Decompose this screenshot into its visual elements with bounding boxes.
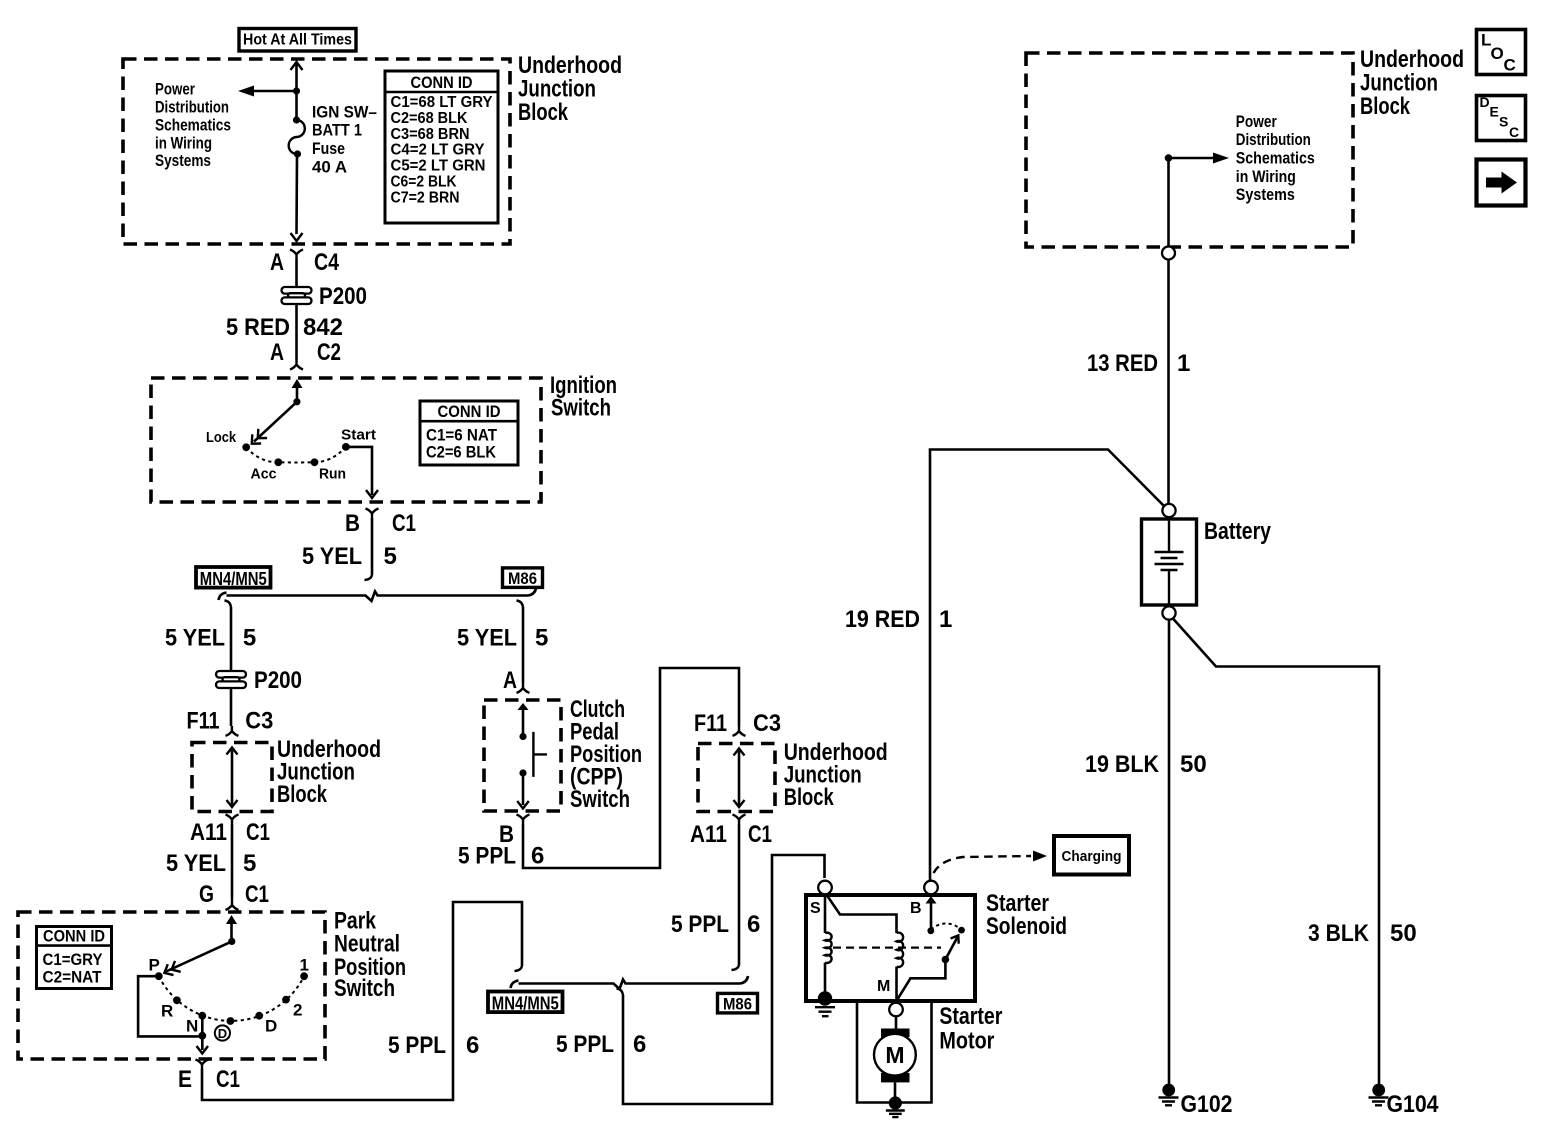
svg-text:E: E (178, 1066, 192, 1093)
svg-text:MN4/MN5: MN4/MN5 (492, 994, 559, 1014)
svg-text:CONN ID: CONN ID (411, 73, 473, 92)
svg-text:5: 5 (535, 624, 548, 651)
wire from fuse to box exit (295, 154, 298, 234)
CPP entry arrow (518, 703, 529, 736)
LOC nav box (1477, 30, 1526, 75)
wire A/C4 to P200 (295, 259, 298, 288)
svg-text:50: 50 (1180, 751, 1207, 778)
svg-text:1: 1 (939, 606, 952, 633)
connector B / C1 below ignition (345, 509, 416, 538)
fixed contact (958, 927, 965, 934)
wire label 13 RED 1 (1087, 350, 1190, 377)
ground G102 (1159, 1084, 1233, 1118)
wire E/C1 to lower bus (5 PPL) (202, 902, 522, 1100)
svg-text:C1: C1 (216, 1066, 240, 1093)
svg-text:MN4/MN5: MN4/MN5 (200, 569, 267, 589)
wire label 5 PPL 6 (to bus) (671, 911, 760, 938)
svg-text:Battery: Battery (1204, 518, 1272, 545)
svg-text:Schematics: Schematics (1236, 149, 1315, 168)
svg-text:D: D (1480, 94, 1490, 110)
label Ignition Switch (550, 372, 617, 422)
svg-text:C3=68 BRN: C3=68 BRN (391, 126, 470, 143)
wire motor to ground (894, 1082, 897, 1098)
svg-text:C1: C1 (392, 510, 416, 537)
starter motor (874, 1029, 916, 1083)
svg-text:5: 5 (384, 543, 397, 570)
PNP positions dashed arc (159, 976, 304, 1021)
wire label 5 YEL 5 (left branch) (165, 624, 256, 651)
svg-text:M86: M86 (723, 995, 752, 1014)
terminal labels S B (810, 900, 922, 917)
contact 1 (300, 972, 308, 980)
feed-through arrow inside junction block (227, 748, 238, 808)
B internal arrow (926, 896, 937, 934)
position labels (206, 428, 376, 483)
contact N output (198, 1032, 206, 1040)
hold-in coil to ground (824, 963, 827, 997)
harness tag M86 (lower) (718, 993, 758, 1013)
battery negative terminal (1162, 606, 1175, 619)
wire CPP B over to second junction block (523, 668, 739, 868)
svg-text:Fuse: Fuse (312, 139, 345, 158)
connector G / C1 (199, 881, 269, 910)
svg-text:C2=6 BLK: C2=6 BLK (426, 443, 497, 462)
svg-text:IGN SW–: IGN SW– (312, 102, 377, 121)
svg-text:in Wiring: in Wiring (1236, 167, 1296, 186)
wire A11 to G (231, 824, 234, 898)
svg-text:C1: C1 (748, 821, 772, 848)
svg-text:C7=2 BRN: C7=2 BRN (391, 189, 460, 206)
svg-text:C4=2 LT GRY: C4=2 LT GRY (391, 142, 485, 159)
ignition switch pivot wire with up arrow (292, 379, 303, 405)
svg-text:G: G (199, 881, 214, 908)
svg-text:2: 2 (293, 1001, 302, 1020)
svg-text:C: C (1509, 124, 1519, 140)
label Underhood Junction Block (right small) (784, 739, 888, 811)
wire from Hot At All Times down to fuse (295, 64, 298, 120)
svg-text:M: M (877, 978, 890, 995)
UJB output terminal circle (1162, 247, 1175, 260)
wire label 5 PPL 6 (PNP output) (388, 1032, 479, 1059)
coil linkage dashed line (833, 946, 941, 948)
down arrowhead at ignition exit (366, 490, 378, 498)
label Underhood Junction Block (right) (1360, 46, 1464, 120)
wire battery to solenoid B (19 RED) (930, 450, 1165, 882)
svg-text:Switch: Switch (570, 786, 630, 813)
wire label 5 RED 842 (226, 314, 343, 341)
PNP wiper arm to P (164, 941, 231, 975)
pull-in coil to M (895, 967, 898, 1000)
terminal M circle (889, 1003, 903, 1017)
svg-text:Starter: Starter (939, 1003, 1002, 1030)
svg-text:Run: Run (319, 467, 346, 483)
starter solenoid box (806, 895, 975, 1001)
svg-text:C3: C3 (753, 710, 781, 737)
svg-text:C4: C4 (314, 249, 340, 276)
contact R (173, 996, 181, 1004)
svg-text:G104: G104 (1387, 1091, 1440, 1118)
connector A / C2 (270, 339, 341, 370)
connector A (CPP) (503, 667, 530, 694)
svg-text:Block: Block (784, 784, 834, 811)
battery cell symbol (1155, 519, 1184, 605)
CPP exit arrow (517, 773, 529, 809)
contact D (255, 1012, 263, 1020)
svg-text:Distribution: Distribution (155, 98, 229, 117)
svg-text:A: A (270, 249, 284, 276)
svg-text:5 PPL: 5 PPL (671, 911, 729, 938)
svg-text:Power: Power (155, 80, 195, 99)
P to N jumper wire (138, 976, 202, 1036)
wire label 19 BLK 50 (1085, 751, 1207, 778)
svg-text:S: S (810, 900, 821, 917)
svg-text:1: 1 (300, 956, 309, 975)
wire 5 RED 842 (295, 304, 298, 360)
harness tag M86 (503, 568, 543, 588)
CONN ID table (underhood junction block) (385, 71, 498, 223)
svg-text:F11: F11 (694, 710, 727, 737)
branch wire to Power Distribution (left arrow) (254, 90, 297, 93)
wire label 5 YEL 5 (302, 543, 397, 570)
svg-text:A11: A11 (690, 821, 727, 848)
svg-text:3 BLK: 3 BLK (1308, 920, 1370, 947)
connector B (CPP) (499, 815, 530, 849)
feed-through arrow inside junction block (right) (734, 749, 745, 808)
charging arrowhead (1033, 851, 1047, 862)
svg-text:O: O (1491, 44, 1504, 63)
svg-text:6: 6 (747, 911, 760, 938)
svg-text:G102: G102 (1181, 1091, 1233, 1118)
junction node in right UJB (1165, 154, 1173, 162)
svg-text:B: B (910, 900, 922, 917)
contact Acc (274, 458, 282, 466)
svg-text:Power: Power (1236, 112, 1277, 131)
svg-text:Acc: Acc (251, 467, 277, 483)
svg-text:Motor: Motor (939, 1028, 994, 1055)
fuse IGN SW-BATT 1 40 A (289, 116, 305, 157)
svg-text:F11: F11 (187, 708, 220, 735)
wire label 19 RED 1 (845, 606, 952, 633)
left branch hook below bus (225, 601, 232, 608)
label Starter Solenoid (986, 890, 1067, 940)
contact Start (342, 443, 350, 451)
wire N contact down to E exit (197, 1016, 209, 1054)
svg-text:5 PPL: 5 PPL (556, 1031, 614, 1058)
svg-text:5 YEL: 5 YEL (165, 624, 225, 651)
wire bus to CPP A (522, 607, 525, 683)
svg-text:Lock: Lock (206, 430, 237, 446)
svg-text:C1=6 NAT: C1=6 NAT (426, 425, 498, 444)
svg-text:C: C (1504, 56, 1516, 75)
svg-text:Charging: Charging (1062, 849, 1122, 865)
terminal B (924, 881, 938, 895)
harness tag MN4/MN5 (196, 567, 271, 589)
wire label 5 PPL 6 (solenoid feed) (556, 1031, 646, 1058)
motor bracket (857, 1001, 932, 1103)
svg-text:5 RED: 5 RED (226, 314, 290, 341)
svg-text:CONN ID: CONN ID (438, 402, 501, 421)
svg-text:B: B (345, 510, 360, 537)
grommet P200 (282, 283, 368, 310)
wire bus to starter solenoid S (623, 855, 825, 1104)
label Underhood Junction Block (left small) (277, 736, 381, 808)
svg-text:C2=NAT: C2=NAT (43, 968, 103, 987)
contact Run (311, 458, 319, 466)
hold-in coil (825, 933, 832, 963)
svg-text:A: A (503, 667, 517, 694)
Hot At All Times label box (239, 29, 356, 52)
svg-text:BATT 1: BATT 1 (312, 121, 362, 140)
svg-text:E: E (1490, 104, 1499, 120)
ignition positions dashed arc (246, 447, 346, 463)
solenoid pull-in winding feed (826, 894, 897, 933)
wire 13 RED to battery (1167, 260, 1170, 505)
svg-text:5 YEL: 5 YEL (457, 624, 517, 651)
svg-text:C1=GRY: C1=GRY (43, 950, 104, 969)
underhood junction block dashed box (right) (1026, 53, 1353, 247)
label Park Neutral Position Switch (334, 908, 406, 1003)
svg-text:19 RED: 19 RED (845, 606, 920, 633)
wire label 5 PPL 6 (CPP out) (458, 843, 544, 870)
wire Start to C1 exit (346, 447, 372, 495)
moving contact arm (897, 935, 959, 1000)
wire label 3 BLK 50 (1308, 920, 1417, 947)
wire P200 to F11 (230, 688, 233, 726)
clutch pedal position switch dashed box (484, 700, 561, 811)
svg-text:Switch: Switch (551, 395, 611, 422)
svg-text:D: D (265, 1016, 277, 1035)
svg-text:N: N (186, 1016, 198, 1035)
underhood junction block dashed box (top left) (123, 59, 510, 244)
svg-text:in Wiring: in Wiring (155, 133, 212, 152)
solenoid case ground (815, 991, 835, 1016)
wire A11 down to lower bus (738, 824, 741, 965)
battery box (1142, 519, 1197, 605)
fuse value label (312, 102, 377, 176)
left branch wire to P200 (230, 607, 233, 671)
ignition switch dashed box (151, 378, 541, 502)
connector F11 / C3 (187, 708, 274, 736)
svg-text:Block: Block (518, 99, 568, 126)
connector A11 / C1 (190, 815, 270, 847)
svg-text:5: 5 (243, 850, 256, 877)
svg-text:1: 1 (1177, 350, 1190, 377)
pull-in coil (897, 933, 904, 967)
svg-text:5: 5 (243, 624, 256, 651)
svg-text:13 RED: 13 RED (1087, 350, 1158, 377)
forward arrow nav box (1477, 160, 1526, 206)
svg-text:Start: Start (341, 428, 376, 444)
svg-text:D: D (218, 1026, 227, 1041)
underhood junction block dashed box (right small) (698, 744, 775, 812)
connector A11 / C1 (right) (690, 815, 772, 849)
branch arrow to Power Distribution (right) (1169, 153, 1230, 164)
wire junction down to UJB output (1167, 158, 1170, 247)
ground G104 (1369, 1084, 1440, 1118)
position labels P R N D 2 1 (149, 956, 309, 1036)
svg-text:M86: M86 (508, 569, 537, 588)
wire battery to G104 (3 BLK) (1173, 618, 1380, 1084)
svg-text:C2: C2 (317, 339, 341, 366)
CONN ID table (ignition switch) (420, 401, 518, 465)
circled D indicator (215, 1025, 230, 1041)
svg-text:S: S (1499, 114, 1508, 130)
contact N (198, 1012, 206, 1020)
svg-text:40 A: 40 A (312, 157, 347, 176)
DESC nav box (1477, 94, 1526, 141)
right branch hook below bus (to CPP) (517, 601, 524, 608)
svg-text:Schematics: Schematics (155, 115, 231, 134)
svg-text:C5=2 LT GRN: C5=2 LT GRN (391, 158, 486, 175)
svg-text:P200: P200 (254, 667, 302, 694)
svg-text:Solenoid: Solenoid (986, 913, 1067, 940)
dashed branch to charging (934, 856, 1032, 873)
svg-text:6: 6 (633, 1031, 646, 1058)
park neutral position switch dashed box (18, 912, 325, 1059)
terminal S (818, 881, 832, 895)
harness tag MN4/MN5 (lower) (488, 992, 563, 1014)
motor ground (886, 1096, 905, 1117)
wire end hook above bus (365, 575, 373, 580)
svg-text:C1: C1 (245, 881, 269, 908)
note: Power Distribution Schematics in Wiring Systems (right) (1236, 112, 1315, 204)
label Underhood Junction Block (top left box) (518, 52, 622, 126)
svg-text:C6=2 BLK: C6=2 BLK (391, 174, 457, 191)
svg-text:5 PPL: 5 PPL (388, 1032, 446, 1059)
svg-text:Systems: Systems (1236, 185, 1295, 204)
svg-text:50: 50 (1390, 920, 1417, 947)
contact P (155, 972, 163, 980)
svg-text:P200: P200 (319, 283, 367, 310)
lower splice bus MN4/MN5 to M86 (511, 976, 749, 989)
contact 2 (282, 996, 290, 1004)
svg-text:5 YEL: 5 YEL (302, 543, 362, 570)
label Clutch Pedal Position (CPP) Switch (570, 696, 642, 813)
PNP pivot wire with up arrow (226, 915, 237, 945)
svg-text:R: R (161, 1002, 173, 1021)
svg-text:6: 6 (531, 843, 544, 870)
wire B/C1 to splice bus (371, 518, 374, 575)
lower branch hook below bus (617, 989, 624, 996)
battery positive terminal (1162, 504, 1175, 517)
connector E / C1 (178, 1060, 240, 1094)
svg-text:19 BLK: 19 BLK (1085, 751, 1160, 778)
svg-text:Block: Block (277, 781, 327, 808)
splice bus MN4/MN5 to M86 (219, 588, 537, 601)
up arrowhead at top of wire (291, 62, 303, 70)
svg-text:A11: A11 (190, 819, 227, 846)
CPP switch contacts and blade (519, 732, 547, 777)
wire battery to G102 (19 BLK) (1168, 620, 1171, 1085)
label Starter Motor (939, 1003, 1002, 1055)
grommet P200 (left branch) (216, 667, 302, 694)
svg-text:6: 6 (466, 1032, 479, 1059)
wire M to motor (895, 1016, 898, 1029)
connector A / C4 (270, 249, 340, 276)
svg-text:Switch: Switch (334, 975, 395, 1002)
contact Lock (242, 443, 250, 451)
ignition switch wiper arm to Lock (252, 402, 297, 444)
wire end hooks above lower bus (515, 965, 740, 971)
Charging label box (1054, 836, 1129, 875)
contact dashed throw arc (931, 924, 962, 930)
svg-text:C3: C3 (245, 708, 273, 735)
svg-text:P: P (149, 956, 160, 975)
wire label 5 YEL 5 (CPP feed) (457, 624, 548, 651)
svg-text:C1=68 LT GRY: C1=68 LT GRY (391, 94, 493, 111)
underhood junction block dashed box (left small) (192, 743, 272, 812)
CONN ID table (PNP switch) (37, 927, 112, 989)
svg-text:Block: Block (1360, 93, 1410, 120)
down arrowhead exiting box (291, 233, 303, 241)
wire label 5 YEL 5 (to PNP) (166, 850, 256, 877)
junction node on feed wire (293, 87, 300, 94)
svg-text:842: 842 (303, 314, 343, 341)
svg-text:C1: C1 (246, 819, 270, 846)
solenoid hold-in winding feed (824, 894, 827, 933)
svg-text:A: A (270, 339, 284, 366)
svg-text:CONN ID: CONN ID (43, 927, 105, 946)
svg-text:Systems: Systems (155, 151, 211, 170)
svg-text:M: M (885, 1042, 904, 1068)
note: Power Distribution Schematics in Wiring Systems (155, 80, 231, 171)
svg-text:Distribution: Distribution (1236, 130, 1311, 149)
connector F11 / C3 (right) (694, 710, 781, 737)
svg-text:C2=68 BLK: C2=68 BLK (391, 110, 468, 127)
svg-text:5 YEL: 5 YEL (166, 850, 226, 877)
svg-text:5 PPL: 5 PPL (458, 843, 516, 870)
svg-text:Hot At All Times: Hot At All Times (243, 32, 352, 49)
contact center (227, 1017, 235, 1025)
